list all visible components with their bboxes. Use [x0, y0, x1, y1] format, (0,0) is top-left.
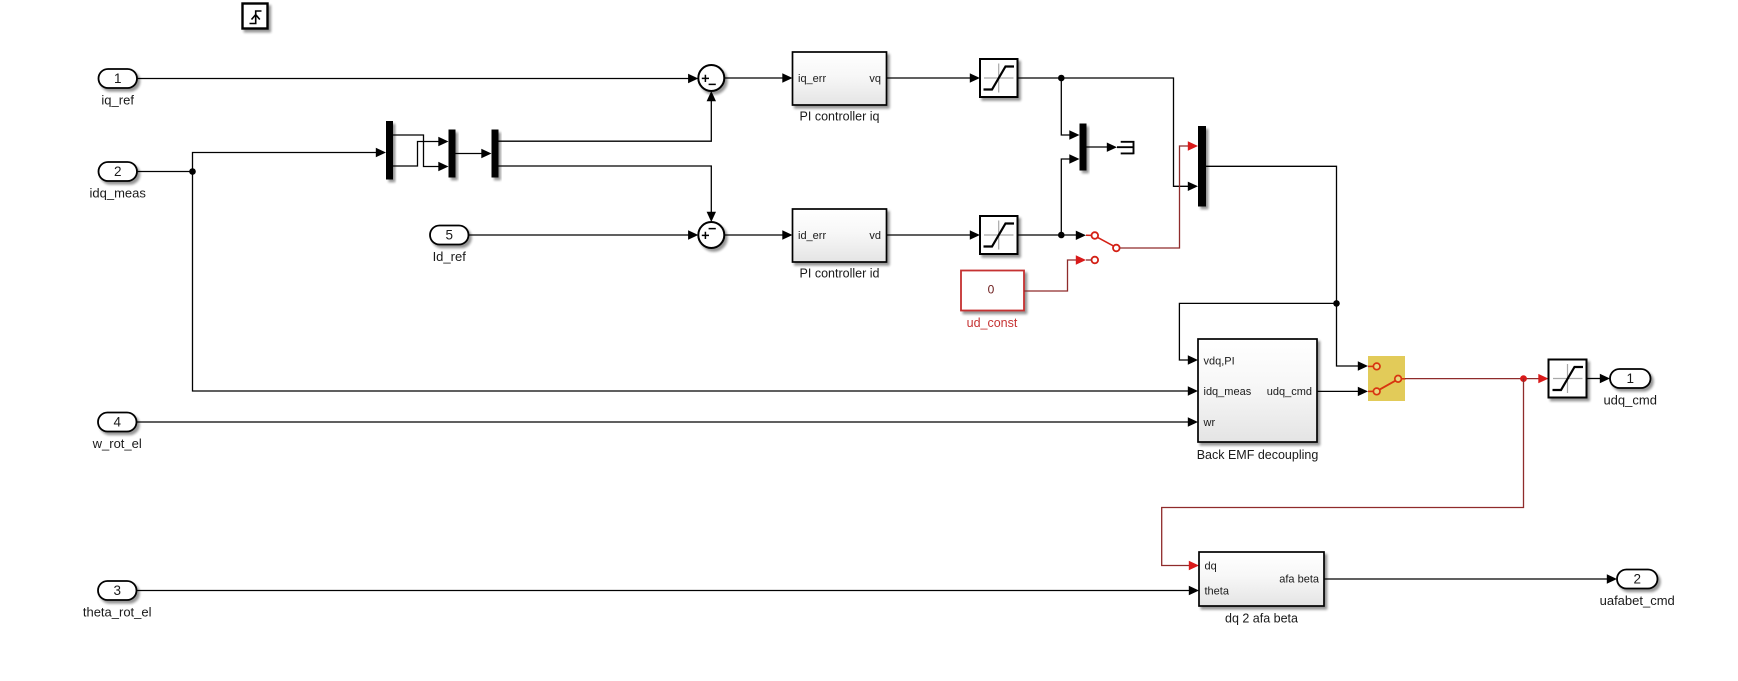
- wire iq_ref to sum iq: [137, 74, 698, 83]
- svg-text:theta_rot_el: theta_rot_el: [83, 605, 152, 620]
- wire saturation vq right, junction, to mux M3 bottom: [1018, 78, 1190, 186]
- wire demux bottom out crossing up to mux: [393, 137, 449, 166]
- wire Back EMF udq_cmd to switch bottom input: [1317, 387, 1368, 396]
- junction dot udq loop: [1333, 300, 1340, 307]
- svg-text:theta: theta: [1205, 586, 1230, 598]
- wire ud_const to manual switch input 2 (red): [1024, 260, 1077, 291]
- wire saturation udq to output port 1: [1587, 374, 1611, 383]
- wire junction down to Back EMF idq_meas: [193, 172, 1199, 396]
- wire vq junction down to mux M2 top: [1061, 78, 1079, 140]
- input port 5 Id_ref: [430, 226, 469, 265]
- svg-text:w_rot_el: w_rot_el: [92, 436, 142, 451]
- svg-text:udq_cmd: udq_cmd: [1603, 393, 1656, 408]
- svg-text:PI controller id: PI controller id: [800, 267, 880, 281]
- svg-text:2: 2: [1633, 572, 1641, 587]
- junction dot vq: [1058, 75, 1065, 82]
- wire junction left down to Back EMF vdq,PI: [1179, 303, 1336, 364]
- svg-text:vdq,PI: vdq,PI: [1204, 356, 1235, 368]
- svg-text:vd: vd: [869, 230, 881, 242]
- svg-text:dq 2 afa beta: dq 2 afa beta: [1225, 612, 1298, 626]
- svg-text:Id_ref: Id_ref: [433, 249, 467, 264]
- svg-text:id_err: id_err: [798, 230, 826, 242]
- svg-text:udq_cmd: udq_cmd: [1267, 386, 1312, 398]
- input port 2 idq_meas: [90, 162, 147, 201]
- svg-text:idq_meas: idq_meas: [1204, 386, 1252, 398]
- svg-text:uafabet_cmd: uafabet_cmd: [1600, 593, 1675, 608]
- svg-text:2: 2: [114, 164, 122, 179]
- svg-text:idq_meas: idq_meas: [90, 186, 147, 201]
- output port 1 udq_cmd: [1603, 369, 1656, 408]
- junction dot idq_meas: [189, 168, 196, 175]
- constant ud_const: [961, 271, 1024, 331]
- saturation udq: [1549, 360, 1587, 398]
- svg-text:1: 1: [114, 71, 122, 86]
- wire red junction down to dq 2 afa beta (red): [1162, 379, 1524, 566]
- svg-text:ud_const: ud_const: [967, 316, 1018, 330]
- svg-text:vq: vq: [869, 73, 881, 85]
- input port 3 theta_rot_el: [83, 581, 152, 620]
- terminator: [1117, 141, 1134, 154]
- wire D2 top out to sum iq bottom: [499, 91, 717, 141]
- mux M2: [1080, 124, 1087, 171]
- svg-text:3: 3: [113, 583, 121, 598]
- subsystem PI controller id: [793, 209, 887, 281]
- output port 2 uafabet_cmd: [1600, 570, 1675, 609]
- wire dq 2 afa beta out to output port 2: [1324, 574, 1617, 583]
- svg-text:wr: wr: [1203, 417, 1216, 429]
- wire mux M2 to terminator: [1087, 143, 1118, 152]
- demux D1: [386, 121, 393, 180]
- sum iq: [698, 65, 724, 91]
- sum id: [698, 222, 724, 248]
- wire PI iq to saturation: [887, 73, 981, 82]
- subsystem Back EMF decoupling: [1197, 339, 1319, 462]
- saturation vd: [980, 216, 1018, 254]
- wire mux M3 out down to switch top input: [1206, 166, 1359, 366]
- wire theta_rot_el to dq 2 afa beta theta: [137, 586, 1200, 595]
- input port 4 w_rot_el: [92, 413, 142, 452]
- mux M3: [1198, 126, 1206, 207]
- svg-text:dq: dq: [1205, 561, 1217, 573]
- wire manual switch out to mux M3 top (red): [1120, 146, 1189, 248]
- svg-text:iq_ref: iq_ref: [101, 93, 134, 108]
- svg-text:afa beta: afa beta: [1279, 574, 1320, 586]
- wire PI id to saturation vd: [887, 230, 981, 239]
- wire mux M1 to demux D2: [456, 149, 492, 158]
- wire switch out to saturation udq (red): [1405, 378, 1540, 380]
- wire vd junction up to mux M2 bottom: [1061, 154, 1079, 235]
- junction dot red: [1520, 375, 1527, 382]
- saturation vq: [980, 59, 1018, 97]
- switch (highlighted yellow): [1368, 356, 1406, 401]
- svg-text:Back EMF decoupling: Back EMF decoupling: [1197, 448, 1319, 462]
- wire demux top out crossing down to mux: [393, 135, 449, 171]
- subsystem PI controller iq: [793, 52, 887, 124]
- wire D2 bottom out to sum id top: [499, 166, 717, 222]
- mux M1: [449, 130, 456, 178]
- wire w_rot_el to Back EMF wr: [137, 417, 1199, 426]
- svg-text:0: 0: [988, 283, 995, 297]
- svg-text:1: 1: [1626, 371, 1634, 386]
- junction dot vd: [1058, 232, 1065, 239]
- svg-text:PI controller iq: PI controller iq: [800, 110, 880, 124]
- wire Id_ref to sum id: [469, 230, 699, 239]
- wire junction up to demux: [193, 148, 387, 172]
- trigger port icon: [243, 4, 268, 29]
- wire saturation vd to manual switch input 1: [1018, 234, 1078, 236]
- wire sum id to PI controller id: [724, 230, 792, 239]
- svg-text:4: 4: [113, 415, 121, 430]
- svg-text:5: 5: [445, 228, 453, 243]
- subsystem dq 2 afa beta: [1199, 552, 1324, 626]
- input port 1 iq_ref: [99, 69, 138, 108]
- manual switch ud: [1086, 232, 1120, 263]
- wire sum iq to PI controller iq: [724, 73, 792, 82]
- wire idq_meas to junction: [137, 171, 193, 173]
- svg-text:iq_err: iq_err: [798, 73, 826, 85]
- demux D2: [492, 130, 499, 178]
